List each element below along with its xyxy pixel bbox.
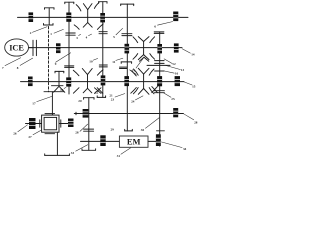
gear pair bars on axis D top (154, 32, 164, 34)
synchronizer S6 (125, 44, 130, 54)
mesh star shaft3 at 143.6: Y upper (138, 68, 149, 88)
leader 15 (184, 82, 192, 85)
clutch C0 plate 2 (35, 40, 37, 55)
synchronizer S19 (100, 135, 105, 146)
final drive foot gear (45, 154, 70, 156)
svg-text:28: 28 (194, 120, 198, 124)
wide gear bar above final drive (44, 91, 64, 93)
leader 4 (88, 34, 92, 36)
svg-text:ICE: ICE (9, 43, 24, 52)
svg-text:24: 24 (131, 100, 135, 104)
svg-text:12: 12 (172, 62, 176, 66)
svg-text:23: 23 (111, 98, 115, 102)
svg-text:22: 22 (95, 90, 99, 94)
leader 10 (93, 58, 98, 60)
leader 28r (183, 114, 194, 120)
svg-text:26: 26 (13, 132, 17, 136)
gear pair bars on axis 69 upper (66, 33, 75, 35)
synchronizer S16 (68, 119, 74, 128)
leader 33 (76, 145, 88, 152)
gear bar on axis D low (157, 130, 165, 132)
leader 24 (135, 96, 143, 100)
gear pair bars on axis B upper (122, 34, 132, 36)
synchronizer S15 (29, 118, 36, 129)
svg-text:20: 20 (78, 99, 82, 103)
synchronizer S2 (66, 13, 71, 22)
synchronizer S10 (66, 77, 71, 86)
leader 2 (32, 27, 47, 33)
leader 17 (37, 96, 53, 102)
final drive ticks (40, 114, 61, 134)
leader 23 (115, 94, 125, 98)
mesh star mid shaft at 87.5: Y lower (83, 82, 92, 93)
leader 18 (64, 87, 66, 88)
leader 13 (165, 65, 180, 69)
leader 7 (5, 58, 21, 66)
gear cap on axis B middle (121, 62, 131, 64)
leader 9 (55, 53, 71, 63)
synchronizer S7 (157, 44, 162, 53)
mesh star shaft2: Y lower (138, 55, 149, 60)
shaft 6 (output shaft left) (26, 123, 42, 125)
leader 19b (129, 70, 136, 75)
gear G3 (axis 59) (52, 71, 65, 92)
svg-text:31: 31 (117, 154, 121, 158)
final drive housing outer (42, 115, 59, 132)
svg-text:29: 29 (111, 128, 115, 132)
EM machine box (119, 136, 148, 147)
svg-text:17: 17 (32, 102, 36, 106)
mesh cross below box12 (152, 87, 158, 93)
leader 8 (20, 58, 33, 66)
axle (dashed centre line) (48, 27, 50, 92)
short gear line right mid (147, 64, 170, 66)
synchronizer S20 (156, 134, 161, 146)
synchronizer S5 (56, 43, 61, 53)
axis E (x=88.8) (82, 98, 96, 151)
mesh star mid shaft at 87.5: Y upper (82, 69, 92, 82)
leader 28em (80, 124, 88, 132)
leader 30 (145, 118, 159, 129)
svg-text:EM: EM (127, 137, 141, 147)
synchronizer S8 (174, 43, 179, 52)
mesh star shaft2 at 143.6: Y upper (138, 37, 149, 55)
mesh arcs mid shaft at 87.5 (73, 70, 103, 94)
mesh cross near axis A bottom (95, 88, 102, 94)
leader 31 (121, 148, 131, 155)
gear pair bars on axis D below (154, 91, 164, 93)
gear pair bars on axis A lower (99, 65, 107, 67)
synchronizer S18 (173, 108, 178, 117)
small gear bars on axis B (120, 67, 127, 68)
leader 34 (161, 142, 182, 148)
leader 1 (54, 29, 64, 33)
leader 26 (18, 125, 28, 132)
ICE engine ellipse (5, 39, 29, 56)
svg-text:19: 19 (132, 68, 136, 72)
synchronizer S12 (124, 76, 129, 86)
mesh arcs shaft3 star (133, 69, 154, 94)
axis B (x=127.3) (121, 4, 134, 131)
axis D (x=159.7) (159, 32, 161, 146)
synchronizer S9 (28, 77, 33, 87)
leader 14 (182, 49, 191, 54)
arc right of box11 lower (131, 88, 137, 94)
svg-text:14: 14 (191, 53, 195, 57)
gear pair bars on axis D mid1 (155, 61, 165, 64)
mesh arcs top shaft (74, 3, 103, 30)
svg-text:13: 13 (181, 68, 185, 72)
svg-text:16: 16 (175, 71, 179, 75)
ICE connector (29, 47, 34, 49)
gear 2 (idler on dashed axle) (44, 8, 55, 25)
leader 12 (164, 59, 173, 64)
final drive housing inner (44, 117, 57, 129)
final drive stem lower (56, 132, 58, 155)
leader 19 (136, 58, 144, 68)
final drive input stem (51, 92, 53, 115)
mesh star shaft3: Y lower (138, 89, 149, 95)
gear pair bars on axis A (99, 32, 107, 34)
gear pair bars on axis E (84, 129, 94, 131)
synchronizer S3 (100, 13, 105, 22)
svg-text:15: 15 (192, 84, 196, 88)
synchronizer S14 (175, 76, 180, 86)
svg-text:34: 34 (183, 147, 187, 151)
gear shaft 69 (first lay axis) (65, 2, 74, 94)
leader 5 (116, 28, 123, 35)
svg-text:28: 28 (75, 130, 79, 134)
gear bar on axis D mid2 (155, 70, 165, 72)
shaft 5 (EM shaft left) (81, 140, 120, 142)
svg-text:18: 18 (60, 88, 64, 92)
leader 27 (33, 130, 42, 135)
svg-text:33: 33 (71, 151, 75, 155)
mesh star top shaft: Y upper (83, 4, 92, 17)
synchronizer S17 (83, 109, 89, 118)
gear pair bars on axis 69 lower (65, 66, 74, 68)
mesh star top shaft: Y lower (83, 17, 92, 27)
shaft 1 (top input shaft) (18, 16, 189, 18)
chevron above mid star (139, 57, 148, 61)
arc right of box11 upper (131, 70, 137, 76)
svg-text:27: 27 (28, 135, 32, 139)
shaft 4 (74, 113, 183, 115)
axis A (x=102.8) (97, 2, 107, 98)
leader 6 (157, 22, 173, 26)
shaft 2 (engine shaft) (29, 47, 183, 49)
leader 3 (78, 34, 80, 35)
leader 16 (164, 71, 175, 73)
shaft 3 (middle countershaft) (21, 81, 185, 83)
synchronizer S11 (101, 75, 106, 85)
svg-text:10: 10 (89, 60, 93, 64)
svg-text:11: 11 (112, 60, 115, 64)
shaft 6 (output shaft right) (59, 123, 68, 125)
mesh arcs shaft2 star (133, 37, 155, 59)
synchronizer S13 (157, 76, 162, 86)
leader 11 (116, 58, 124, 60)
shaft 5 (EM shaft right) (148, 140, 156, 142)
leader 25 (164, 93, 172, 98)
synchronizer S1 (29, 12, 34, 22)
svg-text:25: 25 (171, 97, 175, 101)
shaft 4 end tick (75, 112, 77, 115)
svg-text:30: 30 (141, 128, 145, 132)
clutch C0 plate 1 (32, 40, 34, 55)
synchronizer S4 (173, 12, 178, 22)
